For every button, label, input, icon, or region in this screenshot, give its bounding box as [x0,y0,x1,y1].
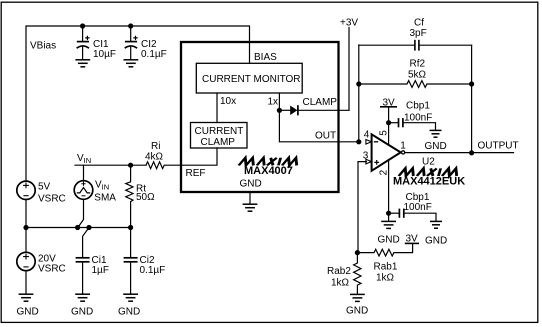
pin 4 arrow [366,140,372,145]
voltage source 20V VSRC [17,252,35,270]
wire pin2 down [388,160,390,213]
junction bus/SMA [75,225,80,230]
svg-text:SMA: SMA [94,192,116,203]
svg-text:5: 5 [379,130,390,136]
svg-text:MAX4412EUK: MAX4412EUK [393,176,465,188]
svg-text:BIAS: BIAS [254,52,277,63]
resistor Rt [126,165,133,227]
ground CI1 [75,60,90,67]
junction OUT/feedback [356,139,361,144]
junction bus/left rail [23,225,28,230]
wire plus input [358,162,366,253]
wire Cf top right [420,44,472,46]
resistor Rab1 [357,244,412,256]
voltage source 5V VSRC [17,181,35,199]
pin 3 arrow [366,159,372,164]
diode D1 [290,105,298,115]
wire Cf top left [359,44,414,46]
junction VIN/Rt [128,163,133,168]
capacitor Ci1 [76,258,90,294]
wire feedback rail left [358,45,360,142]
svg-text:GND: GND [118,307,140,318]
source VIN SMA [74,165,93,199]
ground Cbp1 top [430,130,442,137]
svg-text:CURRENT MONITOR: CURRENT MONITOR [202,74,301,85]
wire +3V to CLAMP [348,28,350,111]
capacitor Cbp1 bottom [389,209,436,221]
capacitor CI1 [77,26,90,59]
wire GND pin [249,192,251,204]
current clamp block [191,123,248,149]
svg-text:0.1µF: 0.1µF [140,265,166,276]
svg-text:50Ω: 50Ω [136,192,155,203]
svg-text:1kΩ: 1kΩ [331,278,350,289]
svg-text:GND: GND [378,234,400,245]
svg-text:CLAMP: CLAMP [303,97,338,108]
op-amp U2 [372,134,401,171]
ground U1 [243,204,258,211]
wire 20V to ground [25,271,27,294]
ground 20V [19,294,34,301]
svg-text:GND: GND [71,307,93,318]
pin CLAMP wire [299,109,349,111]
ground Rab2 [350,294,365,301]
wire pin2 ground stub [388,213,390,221]
svg-text:OUTPUT: OUTPUT [478,140,519,151]
junction CI2/rail [128,23,133,28]
svg-text:GND: GND [425,141,447,152]
svg-text:Rab2: Rab2 [327,266,351,277]
resistor Rab2 [354,253,361,294]
current monitor block [196,63,302,93]
svg-text:VSRC: VSRC [38,264,66,275]
svg-text:Ri: Ri [151,141,160,152]
svg-text:0.1µF: 0.1µF [141,49,167,60]
svg-text:5V: 5V [38,182,51,193]
capacitor Ci2 [124,258,138,294]
junction bus/Ci2 [128,225,133,230]
junction pin2/Cbp1 [386,211,391,216]
wire 10x [216,93,218,123]
ground pin2 [381,221,396,228]
wire pin5 supply [388,107,390,145]
junction output [469,150,474,155]
wire 1x [278,93,280,110]
svg-text:100nF: 100nF [404,112,432,123]
ground Ci1 [75,294,90,301]
ground Ci2 [123,294,138,301]
svg-text:REF: REF [186,168,206,179]
svg-text:Rab1: Rab1 [374,261,398,272]
svg-text:5kΩ: 5kΩ [408,69,427,80]
wire bottom bus [26,227,131,229]
wire bus to 20V [25,228,27,253]
svg-text:4: 4 [364,130,370,141]
svg-text:3V: 3V [383,97,396,108]
svg-text:10µF: 10µF [93,49,116,60]
svg-text:3: 3 [363,151,369,162]
wire 5V to bus [25,200,27,228]
wire VBias top rail [26,26,250,181]
svg-text:3V: 3V [406,234,419,245]
svg-text:3pF: 3pF [410,28,427,39]
wire OUT [279,110,359,142]
ground CI2 [123,60,138,67]
svg-text:MAX4007: MAX4007 [244,165,293,177]
junction pin5/Cbp1 [386,120,391,125]
wire SMA to bus jog [78,199,84,227]
ground Cbp1 bottom [430,221,442,228]
junction bus/Ci1 [86,225,91,230]
svg-text:Cf: Cf [414,17,424,28]
junction Rf2 right [469,81,474,86]
capacitor Cf [415,40,419,51]
svg-text:GND: GND [240,178,262,189]
svg-text:4kΩ: 4kΩ [145,152,164,163]
svg-text:1kΩ: 1kΩ [376,273,395,284]
junction Rab [355,250,360,255]
svg-text:CURRENT: CURRENT [195,126,244,137]
svg-text:VSRC: VSRC [38,194,66,205]
svg-text:100nF: 100nF [404,202,432,213]
capacitor CI2 [125,26,138,59]
wire diode anode [279,109,290,111]
output bubble [402,151,405,154]
resistor Ri [146,162,181,169]
wire REF [181,148,217,165]
svg-text:CLAMP: CLAMP [201,137,236,148]
supply 3V bar Rab1 [405,242,419,244]
svg-text:VBias: VBias [30,40,56,51]
svg-text:GND: GND [17,307,39,318]
supply 3V bar [380,106,397,108]
svg-text:2: 2 [379,169,390,175]
junction 1x/diode [277,108,282,113]
svg-text:OUT: OUT [315,131,336,142]
op-amp U1 MAX4007 box [181,42,339,192]
wire output [405,152,513,154]
resistor Rf2 [359,81,472,88]
svg-text:GND: GND [346,306,368,317]
logo MAXIM U2 [399,168,459,176]
wire VIN input [75,164,146,166]
junction CI1/rail [80,23,85,28]
wire feedback rail right [471,45,473,153]
svg-text:10x: 10x [220,96,236,107]
logo MAXIM U1 [239,158,299,166]
svg-text:1x: 1x [268,97,279,108]
svg-text:1µF: 1µF [92,265,109,276]
svg-text:GND: GND [425,235,447,246]
svg-text:1: 1 [400,141,406,152]
svg-text:Rf2: Rf2 [410,59,426,70]
svg-text:Cbp1: Cbp1 [406,192,430,203]
junction Rf2 left [356,81,361,86]
capacitor Cbp1 top [389,118,436,130]
wire Ci2 top [130,228,132,257]
svg-text:Cbp1: Cbp1 [406,101,430,112]
wire Ci1 jog [83,228,89,257]
